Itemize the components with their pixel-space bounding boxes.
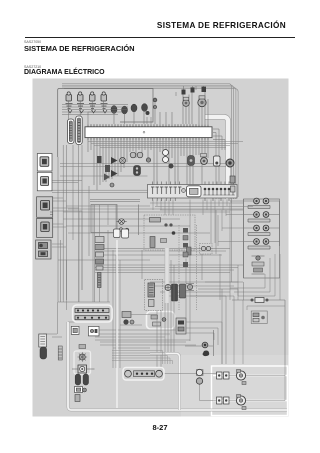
- thermo unit cluster: [185, 330, 214, 356]
- radiator fan relay 3: [248, 225, 270, 235]
- ignition coil pair bottom: [75, 374, 88, 385]
- idle speed control: [187, 244, 213, 256]
- sensor row: crank sensor: [146, 158, 150, 162]
- sensor row: speed sensor: [188, 156, 195, 166]
- sensor row: idle sensor: [226, 159, 234, 167]
- joint connector strip: [148, 185, 238, 199]
- ignition section frame: [58, 89, 153, 158]
- wire bundle ignition verticals: [58, 145, 89, 302]
- wire crossovers below ECU: [60, 142, 243, 177]
- right drop wires lower: [214, 254, 285, 364]
- fan area light panel: [181, 355, 289, 417]
- harness corner bundle bottom: [112, 351, 173, 365]
- white wire stand to bottom: [68, 322, 287, 410]
- coil driver marks: [68, 110, 107, 113]
- spark plug cap 2: [122, 106, 128, 114]
- ECU right staircase wires: [213, 129, 225, 199]
- sensor row: oil switch: [214, 156, 221, 166]
- clutch switch box: [147, 312, 175, 330]
- light harness channel center: [165, 248, 170, 303]
- long verticals center-right: [186, 200, 220, 342]
- middle frame lines: [90, 200, 140, 236]
- fan motor sub-panel: [212, 366, 288, 416]
- sensor row: lean angle sensor: [163, 150, 169, 163]
- water pump motor: [72, 345, 95, 375]
- starter relay coupler: [71, 326, 79, 334]
- white wire battery vertical: [116, 240, 118, 408]
- ECU pin ticks top: [88, 124, 208, 127]
- pickup coil dot: [146, 111, 150, 115]
- ground joint: [165, 285, 171, 291]
- ignition coil 2: [77, 92, 84, 109]
- strip drop verticals: [153, 200, 231, 244]
- white wire fuse branch: [150, 354, 180, 411]
- spark plug cap 3: [131, 104, 137, 112]
- sensor row: O2 sensor: [169, 164, 174, 169]
- fuse main: [232, 298, 285, 366]
- left connector box 1: [37, 154, 52, 172]
- mid horizontal bus wires 2: [63, 203, 253, 296]
- diode joint: [153, 98, 157, 102]
- ECU sub assembly: [145, 279, 163, 310]
- wire right column: [222, 199, 244, 364]
- left connector box 4: [37, 218, 53, 237]
- mid horizontal bus wires: [58, 219, 243, 273]
- resistor hatch left: [58, 346, 62, 360]
- relay couplers pair: [114, 229, 129, 238]
- injector driver cluster: [97, 156, 141, 187]
- ignition coil 1: [66, 92, 73, 109]
- spark plug cap 1: [111, 106, 117, 114]
- ECU coupler A: [68, 119, 75, 144]
- relay box frame: [244, 199, 280, 278]
- fan motor 1 connector: [217, 372, 230, 379]
- fan motor 1: [236, 370, 246, 385]
- horizontal bus lower: [43, 282, 243, 345]
- component box throttle body: [144, 215, 195, 250]
- ECU U1: [85, 127, 212, 138]
- fan motor 2 connector: [217, 397, 230, 404]
- ECU coupler B: [76, 116, 83, 145]
- horizontal bus lower 2: [95, 315, 222, 349]
- main white harness wire right: [205, 117, 228, 199]
- left connector box 3: [37, 197, 53, 218]
- wire bundle mid-left verticals: [63, 205, 116, 310]
- radiator fan relay 1: [248, 198, 270, 208]
- throttle sensor couplers: [182, 87, 207, 95]
- fan motor 2: [236, 395, 246, 410]
- fuel injection stack: [95, 237, 104, 288]
- fan power rows: [213, 376, 287, 401]
- diode joint 2: [153, 105, 156, 108]
- relay wiring: [244, 199, 280, 278]
- wire bundle coils to ECU: [69, 101, 172, 124]
- fan feed wires: [164, 365, 285, 401]
- ignition coil 4: [101, 92, 108, 109]
- harness bundle top-right: [62, 84, 238, 200]
- dashed harness line 2: [196, 225, 198, 310]
- ignition coil 3: [89, 92, 96, 109]
- ECU pin ticks bottom: [88, 138, 208, 141]
- bottom connector stack: [75, 387, 87, 402]
- diode block: [252, 256, 265, 274]
- wire bundle below ECU: [88, 140, 208, 190]
- wire bundle sensors to ECU: [183, 86, 208, 124]
- coil driver rail wires: [62, 105, 128, 115]
- main switch cluster: [122, 312, 134, 325]
- radiator fan relay 4: [248, 239, 270, 249]
- sensor row: air temp sensor: [201, 154, 208, 165]
- intake pressure sensor: [198, 96, 206, 107]
- left connector box 5: [36, 240, 51, 259]
- thermo switch ladder: [123, 368, 164, 381]
- fuse box small: [251, 311, 267, 324]
- sidestand switch: [39, 334, 47, 359]
- joint strip pin ticks: [153, 182, 233, 202]
- left branch wires: [52, 180, 230, 247]
- warning lamp: [117, 219, 129, 232]
- fuse block strip: [73, 305, 113, 322]
- spark plug cap 4: [142, 104, 148, 112]
- starter relay: [88, 326, 99, 336]
- sensor row: coolant temp sensor: [130, 152, 143, 158]
- harness stack components: [183, 228, 188, 267]
- left connector box 2: [37, 172, 52, 191]
- top frame verticals: [147, 86, 196, 124]
- radiator fan relay 2: [248, 212, 270, 222]
- diagram background: [33, 79, 289, 417]
- dashed box main harness: [178, 225, 180, 310]
- engine stop switch box: [176, 318, 186, 334]
- AC magneto: [186, 284, 194, 291]
- long harness verticals center: [57, 205, 174, 368]
- bundle items right: [230, 176, 235, 192]
- regulator rectifier: [172, 284, 186, 301]
- throttle position sensor: [183, 97, 190, 106]
- relay feed wires: [218, 201, 243, 246]
- coolant temp joint coupler: [196, 369, 203, 384]
